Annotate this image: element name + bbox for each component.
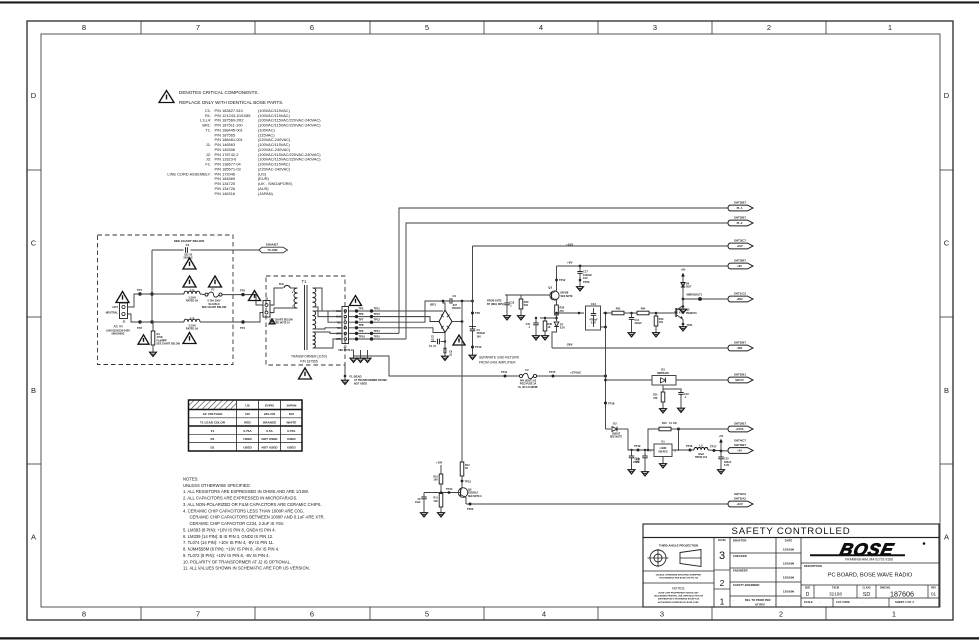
small warning triangle at J2 note xyxy=(269,319,275,324)
connector J2 transformer primary xyxy=(263,296,274,317)
svg-text:THIS DRAWING PER BOSE STD PD-1: THIS DRAWING PER BOSE STD PD-100 xyxy=(659,577,699,580)
svg-text:SHT4/C7: SHT4/C7 xyxy=(734,439,746,443)
ground at R15 xyxy=(660,407,667,413)
svg-text:USED: USED xyxy=(243,437,252,441)
notice cell xyxy=(643,583,714,604)
svg-text:+8V: +8V xyxy=(737,264,742,268)
svg-text:REPLACE ONLY WITH IDENTICAL BO: REPLACE ONLY WITH IDENTICAL BOSE PARTS. xyxy=(179,100,283,105)
zone tick marks left/right xyxy=(27,169,41,171)
junction dots on DC+ wire xyxy=(442,300,445,303)
svg-text:5: 5 xyxy=(425,610,429,619)
svg-text:5: 5 xyxy=(425,23,429,32)
transformer label text xyxy=(291,355,327,364)
svg-text:TP11: TP11 xyxy=(501,370,508,374)
svg-text:-: - xyxy=(733,598,734,602)
svg-text:P/N 187565: P/N 187565 xyxy=(300,359,318,363)
svg-text:6: 6 xyxy=(310,610,314,619)
junction C10/R38 tap xyxy=(544,317,546,319)
svg-text:T1: T1 xyxy=(302,279,308,284)
svg-text:33uH: 33uH xyxy=(698,453,704,456)
svg-text:2. ALL CAPACITORS ARE EXPRESSE: 2. ALL CAPACITORS ARE EXPRESSED IN MICRO… xyxy=(183,496,297,501)
capacitor C3 main filter xyxy=(469,327,486,339)
capacitor C19 xyxy=(678,393,689,407)
wire +15VA to flag xyxy=(679,428,728,430)
raw positive rail vertical with C3 xyxy=(472,246,474,329)
fuse F2 on bus xyxy=(518,368,538,389)
svg-text:REV: REV xyxy=(931,586,936,589)
svg-text:+10V: +10V xyxy=(436,461,443,465)
page bottom edge strip xyxy=(0,637,979,639)
svg-text:SH4A/B7: SH4A/B7 xyxy=(266,243,279,247)
ferrite bead FL2 not used - stub xyxy=(344,365,347,378)
svg-text:RATED 3A: RATED 3A xyxy=(186,299,199,302)
svg-text:SEE NOTE: SEE NOTE xyxy=(610,436,622,439)
wire J1 neutral xyxy=(128,314,141,322)
svg-text:270: 270 xyxy=(560,310,565,313)
svg-text:LEVEL: LEVEL xyxy=(718,538,727,542)
capacitor C6 xyxy=(444,348,453,357)
svg-text:TP19: TP19 xyxy=(634,444,641,448)
svg-text:R44: R44 xyxy=(641,307,646,310)
svg-text:+8V: +8V xyxy=(567,260,574,264)
svg-text:TMS50 10A: TMS50 10A xyxy=(695,456,708,459)
svg-text:JAPAN: JAPAN xyxy=(286,404,297,408)
svg-text:7: 7 xyxy=(196,23,200,32)
raw rail vertical to R12 xyxy=(461,301,463,462)
wire C1 to flag xyxy=(191,249,260,251)
ground bar under J3 xyxy=(354,350,368,356)
svg-text:100: 100 xyxy=(289,412,294,416)
resistor R12 xyxy=(460,462,470,476)
resistor R1 bleed xyxy=(151,322,180,350)
scale / cat code / sheet row xyxy=(801,598,939,607)
svg-text:3: 3 xyxy=(660,610,664,619)
svg-text:SEE NOTE: SEE NOTE xyxy=(561,295,573,298)
wire +8V2 to flag xyxy=(683,298,728,300)
transistor Q2 xyxy=(676,299,697,324)
warning triangle right of J3 xyxy=(350,296,362,306)
svg-text:220uF: 220uF xyxy=(635,322,643,325)
wire R44 onward xyxy=(649,312,676,314)
wire bead to winding xyxy=(290,287,296,289)
svg-text:TP17: TP17 xyxy=(710,445,717,449)
test point TP16 xyxy=(689,449,692,452)
test point TP4 xyxy=(241,320,244,323)
svg-text:DISTRIBUTION IS PROHIBITED EXC: DISTRIBUTION IS PROHIBITED EXCEPT AS xyxy=(658,598,700,601)
svg-text:F2: F2 xyxy=(525,368,529,372)
svg-text:NOTICE: NOTICE xyxy=(672,587,685,591)
transistor Q5 xyxy=(458,487,482,504)
svg-text:EURO: EURO xyxy=(265,404,275,408)
diode D4 xyxy=(681,282,692,288)
version chart table xyxy=(189,400,303,451)
svg-text:1: 1 xyxy=(888,23,892,32)
svg-text:NOT USED: NOT USED xyxy=(262,437,279,441)
junction R43 xyxy=(655,312,658,315)
svg-text:10. POLARITY OF TRANSFORMER AT: 10. POLARITY OF TRANSFORMER AT J2 IS OPT… xyxy=(183,559,291,564)
svg-text:AUTHORIZED IN WRITING BY BOSE: AUTHORIZED IN WRITING BY BOSE CORP. xyxy=(658,601,699,604)
resistor R44 xyxy=(637,307,649,314)
svg-text:4. CERAMIC CHIP CAPACITORS LES: 4. CERAMIC CHIP CAPACITORS LESS THAN 100… xyxy=(183,508,304,513)
junction R16 left xyxy=(647,449,650,452)
resistor R43 xyxy=(654,313,664,331)
svg-text:3: 3 xyxy=(653,23,657,32)
warning triangle below transformer box xyxy=(299,368,312,379)
main return bus wire +27VAC xyxy=(389,375,519,377)
svg-text:1: 1 xyxy=(892,610,896,619)
wire R12 to Q5 collector xyxy=(461,476,463,488)
svg-text:+5V: +5V xyxy=(737,449,742,453)
resistor R40 xyxy=(519,295,529,314)
ground at R38 xyxy=(542,334,549,340)
svg-text:DATE: DATE xyxy=(785,539,793,543)
svg-text:MBR0520LT1: MBR0520LT1 xyxy=(687,293,703,296)
svg-text:FRAMINGHAM, MA 01701-9168: FRAMINGHAM, MA 01701-9168 xyxy=(845,557,893,561)
warning triangle above fuse F1 xyxy=(209,276,222,287)
warning triangle near bridge xyxy=(453,335,465,345)
svg-text:6.3V: 6.3V xyxy=(724,464,729,467)
svg-text:US: US xyxy=(245,404,249,408)
wire C12 to R42 xyxy=(603,312,612,314)
svg-text:8: 8 xyxy=(82,610,86,619)
svg-text:500: 500 xyxy=(524,304,529,307)
svg-text:BR1: BR1 xyxy=(430,303,436,307)
svg-text:SD: SD xyxy=(863,592,871,598)
wire secondary row6 to PL-2 vertical xyxy=(374,338,406,340)
svg-text:100: 100 xyxy=(659,321,664,324)
text from-sheet ref at Q3 base row xyxy=(487,300,504,306)
resistor R42 xyxy=(612,307,624,314)
ground at R11 xyxy=(438,511,445,517)
test point TP19 xyxy=(637,449,640,452)
diode D3 (boxed schottky) xyxy=(652,367,676,385)
svg-text:6. LM339 (14 PIN): B IS PIN 3,: 6. LM339 (14 PIN): B IS PIN 3, GND2 IS P… xyxy=(183,534,273,539)
svg-text:PL-2: PL-2 xyxy=(737,221,743,225)
warning triangle left of J2 xyxy=(249,291,261,301)
svg-text:C: C xyxy=(944,239,950,248)
junction C15 xyxy=(720,450,723,453)
svg-text:L4960: L4960 xyxy=(660,447,667,450)
wire secondary row1 to bridge top xyxy=(374,310,443,312)
svg-text:7. TL074 (14 PIN): +10V IS PIN: 7. TL074 (14 PIN): +10V IS PIN 4, -8V IS… xyxy=(183,540,274,545)
junction C17 on +8V rail xyxy=(579,265,582,268)
svg-text:NOT USED: NOT USED xyxy=(262,445,279,449)
page top edge strip xyxy=(0,1,979,3)
svg-text:8: 8 xyxy=(82,23,86,32)
svg-text:32108: 32108 xyxy=(829,592,842,597)
svg-text:SEE CHART BELOW: SEE CHART BELOW xyxy=(202,306,227,309)
connector J3 transformer secondary xyxy=(336,307,348,344)
svg-text:+10V: +10V xyxy=(566,243,574,247)
wire PL-2 from J3 row6 up and right to flag xyxy=(406,223,728,339)
test point TP2 xyxy=(138,320,141,323)
wire R16 node down to output xyxy=(678,429,680,451)
title block outline xyxy=(643,538,939,608)
test point TP13 xyxy=(461,480,464,483)
wire R42 to R44 xyxy=(624,312,637,314)
wire C12 return to vertical xyxy=(601,326,606,328)
svg-text:C2: C2 xyxy=(453,294,457,298)
svg-text:12/16/96: 12/16/96 xyxy=(783,562,795,566)
svg-text:PL-1: PL-1 xyxy=(737,206,743,210)
svg-text:J2: J2 xyxy=(265,296,269,300)
svg-text:GRY: GRY xyxy=(336,339,341,341)
svg-text:5. LM393 (8 PIN): +10V IS PIN: 5. LM393 (8 PIN): +10V IS PIN 8, GND4 IS… xyxy=(183,528,276,533)
projection note fine print xyxy=(643,571,714,580)
svg-text:SHT4/C2: SHT4/C2 xyxy=(734,492,746,496)
text FL BEAD not used xyxy=(350,375,388,386)
wire L2 to flag +5V xyxy=(708,450,728,451)
svg-text:TP21: TP21 xyxy=(687,324,694,327)
wire ground bar to main return bus xyxy=(368,356,390,375)
test point TP14 xyxy=(448,491,451,494)
svg-text:-28V: -28V xyxy=(566,342,573,346)
svg-text:9. TL072 (8 PIN): +10V IS PI: 9. TL072 (8 PIN): +10V IS PIN 8, -8V IS … xyxy=(183,553,270,558)
svg-text:SHT2/B7: SHT2/B7 xyxy=(734,201,746,205)
-28V rail wire to flag xyxy=(552,347,728,349)
svg-text:ORANGE: ORANGE xyxy=(263,420,277,424)
svg-text:47K: 47K xyxy=(653,397,658,400)
svg-text:D2: D2 xyxy=(613,422,617,426)
svg-text:TP18: TP18 xyxy=(608,402,615,406)
wire D7 to -28V rail xyxy=(552,327,557,349)
flag - chassis ground sheet ref SH4A/B7 xyxy=(259,243,288,253)
fuse F1 xyxy=(202,288,227,309)
junction D4 output xyxy=(682,298,685,301)
svg-text:TP22: TP22 xyxy=(467,507,474,511)
svg-text:0.75A: 0.75A xyxy=(287,429,296,433)
svg-text:SEE NOTE 10: SEE NOTE 10 xyxy=(338,349,354,352)
test point TP15 on bus xyxy=(552,375,555,378)
capacitor C17 xyxy=(577,266,592,285)
test point TP17 xyxy=(713,449,716,452)
AC input section dashed box xyxy=(98,235,234,365)
svg-text:5817: 5817 xyxy=(686,286,692,289)
svg-text:8. NJM4558M (8 PIN): +10V IS P: 8. NJM4558M (8 PIN): +10V IS PIN 8, -8V … xyxy=(183,547,279,552)
svg-text:3: 3 xyxy=(719,550,725,562)
capacitor C18 xyxy=(504,295,514,314)
svg-text:1000uF: 1000uF xyxy=(583,273,592,277)
transistor Q3 pass regulator xyxy=(548,286,573,303)
svg-text:L2: L2 xyxy=(699,443,703,447)
transformer section dashed box xyxy=(266,276,345,365)
capacitor C1 xyxy=(183,243,193,259)
svg-text:10uF: 10uF xyxy=(415,501,421,504)
junction raw vertical xyxy=(461,320,464,323)
wire neutral to L4 xyxy=(140,321,184,323)
svg-text:2: 2 xyxy=(779,610,783,619)
capacitor C14 xyxy=(629,313,642,331)
svg-text:50HZ/60HZ: 50HZ/60HZ xyxy=(112,333,125,336)
junction R16 right xyxy=(677,428,680,431)
notes text block xyxy=(183,477,325,571)
resistor R11 xyxy=(433,494,442,511)
secondary output wires with test points xyxy=(349,310,375,312)
capacitor C8 xyxy=(415,493,441,511)
junction dot C1 leg / line xyxy=(150,292,153,295)
svg-text:RATED 3A: RATED 3A xyxy=(186,327,199,330)
svg-text:RED: RED xyxy=(244,420,251,424)
svg-text:A: A xyxy=(31,533,36,542)
wire bridge bottom vertex down xyxy=(444,333,446,350)
wire J1 hot to line xyxy=(128,294,141,307)
resistor R10 xyxy=(433,465,442,493)
junction bus to switcher vertical xyxy=(604,375,607,378)
svg-text:J1:: J1: xyxy=(206,142,211,147)
svg-text:+10V: +10V xyxy=(736,502,743,506)
svg-text:NOT USED: NOT USED xyxy=(354,383,367,386)
svg-text:USED: USED xyxy=(287,445,296,449)
svg-text:B7 (REG DRV): B7 (REG DRV) xyxy=(487,303,504,306)
svg-text:AT REV: AT REV xyxy=(755,602,765,606)
test point TP18 xyxy=(604,402,607,405)
+8V rail wire to flag xyxy=(557,265,728,267)
ground at C15 xyxy=(718,468,725,474)
svg-text:187606: 187606 xyxy=(890,589,914,598)
svg-text:-: - xyxy=(862,600,863,604)
resistor R39 xyxy=(555,305,565,315)
svg-text:7: 7 xyxy=(196,610,200,619)
ground at Q2 emitter xyxy=(680,325,687,331)
svg-text:PN2907A: PN2907A xyxy=(686,312,697,315)
junction mid row / vertical xyxy=(604,312,607,315)
svg-text:115: 115 xyxy=(245,412,250,416)
bridge rectifier BR1 xyxy=(430,303,452,333)
svg-text:SL_BLO FLMPRF: SL_BLO FLMPRF xyxy=(518,386,538,389)
wire - C1 branch to chassis flag xyxy=(152,249,184,251)
wire U1 output xyxy=(672,449,694,451)
capacitor C12 (boxed electrolytic) xyxy=(586,302,601,330)
svg-text:L4: L4 xyxy=(190,316,194,320)
svg-text:C12: C12 xyxy=(591,302,596,306)
svg-text:TP9: TP9 xyxy=(475,311,480,315)
svg-text:C1: C1 xyxy=(186,243,190,247)
svg-text:J1: J1 xyxy=(122,320,126,324)
svg-text:BLK: BLK xyxy=(336,311,341,313)
svg-text:F1: F1 xyxy=(211,429,215,433)
ground at C14 xyxy=(628,331,635,337)
junction at C12 input xyxy=(578,312,581,315)
diode D2 xyxy=(606,422,629,439)
svg-text:NEUTRAL: NEUTRAL xyxy=(106,311,119,315)
svg-text:150uF: 150uF xyxy=(633,461,640,464)
regulator U1 (boxed) xyxy=(650,440,676,462)
svg-text:FSCM: FSCM xyxy=(832,586,839,589)
svg-text:TP13: TP13 xyxy=(465,479,472,483)
svg-text:0.75A: 0.75A xyxy=(243,429,252,433)
svg-text:1K: 1K xyxy=(465,467,468,470)
test points second column at J3 xyxy=(370,309,373,312)
svg-text:0.5A: 0.5A xyxy=(266,429,273,433)
capacitor C13 xyxy=(629,449,640,468)
svg-text:ENGINEER: ENGINEER xyxy=(733,569,748,573)
description cell xyxy=(801,563,939,579)
svg-text:TP12: TP12 xyxy=(374,312,381,316)
svg-text:SHEET 1 OF 4: SHEET 1 OF 4 xyxy=(895,600,914,604)
ground at C13 xyxy=(628,468,635,474)
svg-text:TRANSFORMER (115V): TRANSFORMER (115V) xyxy=(291,355,327,359)
wire primary bottom to J2 pin2 xyxy=(270,308,298,313)
svg-text:TP1: TP1 xyxy=(137,288,142,292)
junction dot C1 leg / neutral xyxy=(150,320,153,323)
svg-text:L3: L3 xyxy=(190,288,194,292)
svg-text:SHT2/B7: SHT2/B7 xyxy=(734,341,746,345)
svg-text:12/16/96: 12/16/96 xyxy=(783,576,795,580)
svg-text:SHT3/B7: SHT3/B7 xyxy=(734,259,746,263)
junction D3 tap xyxy=(604,379,607,382)
test point TP21 xyxy=(682,323,685,326)
test point TP1 xyxy=(138,292,141,295)
svg-text:6: 6 xyxy=(310,23,314,32)
test point TP10 on rail xyxy=(471,346,474,349)
ground at R40 xyxy=(518,314,525,320)
svg-text:SEPARATE GND RETURN: SEPARATE GND RETURN xyxy=(479,356,520,360)
ferrite bead FL1 on primary lead xyxy=(279,283,290,288)
svg-text:1K: 1K xyxy=(548,326,551,329)
svg-text:D: D xyxy=(31,91,37,100)
transformer T1 secondary winding 1 xyxy=(313,288,316,307)
third angle projection cell xyxy=(648,544,702,568)
svg-text:SCALE: SCALE xyxy=(804,600,813,604)
svg-text:CAT. CODE: CAT. CODE xyxy=(836,600,850,604)
connector J1 AC inlet xyxy=(106,303,128,324)
svg-text:TP15: TP15 xyxy=(549,370,556,374)
snubber loop under D3 xyxy=(663,385,681,392)
inductor L4 xyxy=(184,316,200,331)
wire line to L3 xyxy=(140,293,184,295)
svg-text:0.1 1W: 0.1 1W xyxy=(669,422,677,425)
svg-text:DRAFTER: DRAFTER xyxy=(733,539,746,543)
inductor L2 xyxy=(694,443,708,459)
svg-text:3. ALL NON-POLARIZED OR FILM C: 3. ALL NON-POLARIZED OR FILM CAPACITORS … xyxy=(183,502,322,507)
svg-text:THIRD ANGLE PROJECTION: THIRD ANGLE PROJECTION xyxy=(659,544,698,548)
svg-text:-: - xyxy=(775,602,776,606)
svg-text:1: 1 xyxy=(720,597,725,607)
svg-text:NOTES:: NOTES: xyxy=(183,477,199,482)
wire bias tap to cluster xyxy=(540,317,557,319)
svg-text:HOT: HOT xyxy=(113,305,119,309)
critical parts list xyxy=(167,108,321,196)
wire D2 to U1 input xyxy=(628,429,654,450)
svg-text:C4 .01: C4 .01 xyxy=(429,345,437,348)
svg-text:AC VOLTAGE: AC VOLTAGE xyxy=(203,412,223,416)
svg-text:SHT2/B7: SHT2/B7 xyxy=(734,216,746,220)
svg-text:-28V: -28V xyxy=(737,346,743,350)
svg-text:LINE CORD ASSEMBLY:: LINE CORD ASSEMBLY: xyxy=(167,171,211,176)
svg-text:SW-5V: SW-5V xyxy=(735,378,744,382)
svg-text:TP5: TP5 xyxy=(359,306,364,310)
wire +10V rail to flag xyxy=(473,245,728,247)
svg-text:8.2V: 8.2V xyxy=(560,327,565,330)
test point TP22 xyxy=(469,503,472,506)
svg-text:+8V2: +8V2 xyxy=(736,297,743,301)
svg-text:+5V: +5V xyxy=(719,435,724,438)
svg-text:TP6: TP6 xyxy=(359,312,364,316)
svg-text:TP10: TP10 xyxy=(359,334,366,338)
zone tick marks top/bottom xyxy=(140,21,142,34)
svg-text:SAFETY ENGINEER: SAFETY ENGINEER xyxy=(733,583,759,587)
ground symbols under J3 (3x) xyxy=(350,356,357,362)
ground at C8 xyxy=(421,511,428,517)
resistor R15 xyxy=(653,389,665,407)
svg-text:PC BOARD, BOSE WAVE RADIO: PC BOARD, BOSE WAVE RADIO xyxy=(828,573,913,579)
svg-text:TP10: TP10 xyxy=(475,345,482,349)
level column xyxy=(714,538,730,607)
svg-text:SEE NOTE 9: SEE NOTE 9 xyxy=(468,496,482,498)
svg-text:T1:: T1: xyxy=(205,128,211,133)
wire mid filter row start xyxy=(557,312,585,314)
wire Q3 emitter down to bias chain xyxy=(556,303,558,305)
